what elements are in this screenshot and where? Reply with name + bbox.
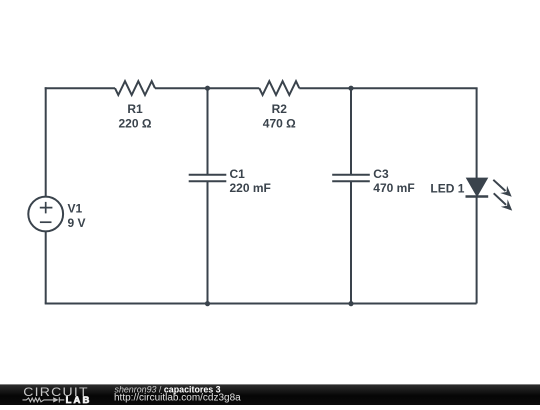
svg-text:220 Ω: 220 Ω xyxy=(119,116,152,130)
svg-text:R2: R2 xyxy=(272,102,288,116)
svg-text:C3: C3 xyxy=(373,167,389,181)
voltage source V1 xyxy=(28,197,63,232)
wire C1 branch lower xyxy=(207,181,209,303)
logo resistor-diode symbol xyxy=(23,397,65,402)
node junction bottom C1 xyxy=(205,301,210,306)
label V1 value xyxy=(68,202,86,230)
footer url text xyxy=(114,392,241,403)
label LED1 xyxy=(430,182,464,196)
wire bottom xyxy=(45,303,477,305)
wire C3 branch lower xyxy=(350,181,352,303)
wire top segment 1 xyxy=(45,87,115,89)
svg-text:C1: C1 xyxy=(230,167,246,181)
capacitor C3 xyxy=(332,175,370,182)
logo CIRCUIT text xyxy=(23,385,88,399)
svg-text:220 mF: 220 mF xyxy=(230,181,271,195)
wire right vertical upper xyxy=(476,88,478,178)
LED light arrow 1 xyxy=(493,180,511,197)
wire C3 branch upper xyxy=(350,88,352,175)
resistor R2 xyxy=(259,81,299,95)
label R2 value xyxy=(263,102,296,130)
wire left vertical lower xyxy=(45,231,47,303)
wire left vertical upper xyxy=(45,87,47,196)
svg-text:V1: V1 xyxy=(68,202,83,216)
footer bar xyxy=(0,384,540,405)
label C1 value xyxy=(230,167,271,195)
wire C1 branch upper xyxy=(207,88,209,175)
svg-text:LAB: LAB xyxy=(66,395,92,405)
svg-text:9 V: 9 V xyxy=(68,216,86,230)
capacitor C1 xyxy=(189,175,227,182)
wire top segment 3 xyxy=(299,87,477,89)
node junction top C3 xyxy=(348,86,353,91)
svg-text:http://circuitlab.com/cdz3g8a: http://circuitlab.com/cdz3g8a xyxy=(114,392,241,403)
svg-text:470 mF: 470 mF xyxy=(373,181,414,195)
wire top segment 2 xyxy=(155,87,259,89)
svg-text:470 Ω: 470 Ω xyxy=(263,116,296,130)
label R1 value xyxy=(119,102,152,130)
resistor R1 xyxy=(115,81,155,95)
logo LAB text xyxy=(66,395,92,406)
node junction top C1 xyxy=(205,86,210,91)
footer title text xyxy=(115,384,221,394)
node junction bottom C3 xyxy=(348,301,353,306)
LED LED1 xyxy=(466,178,489,196)
LED light arrow 2 xyxy=(494,193,513,210)
svg-text:LED 1: LED 1 xyxy=(430,182,464,196)
svg-text:R1: R1 xyxy=(127,102,143,116)
label C3 value xyxy=(373,167,414,195)
wire right vertical lower xyxy=(476,197,478,304)
